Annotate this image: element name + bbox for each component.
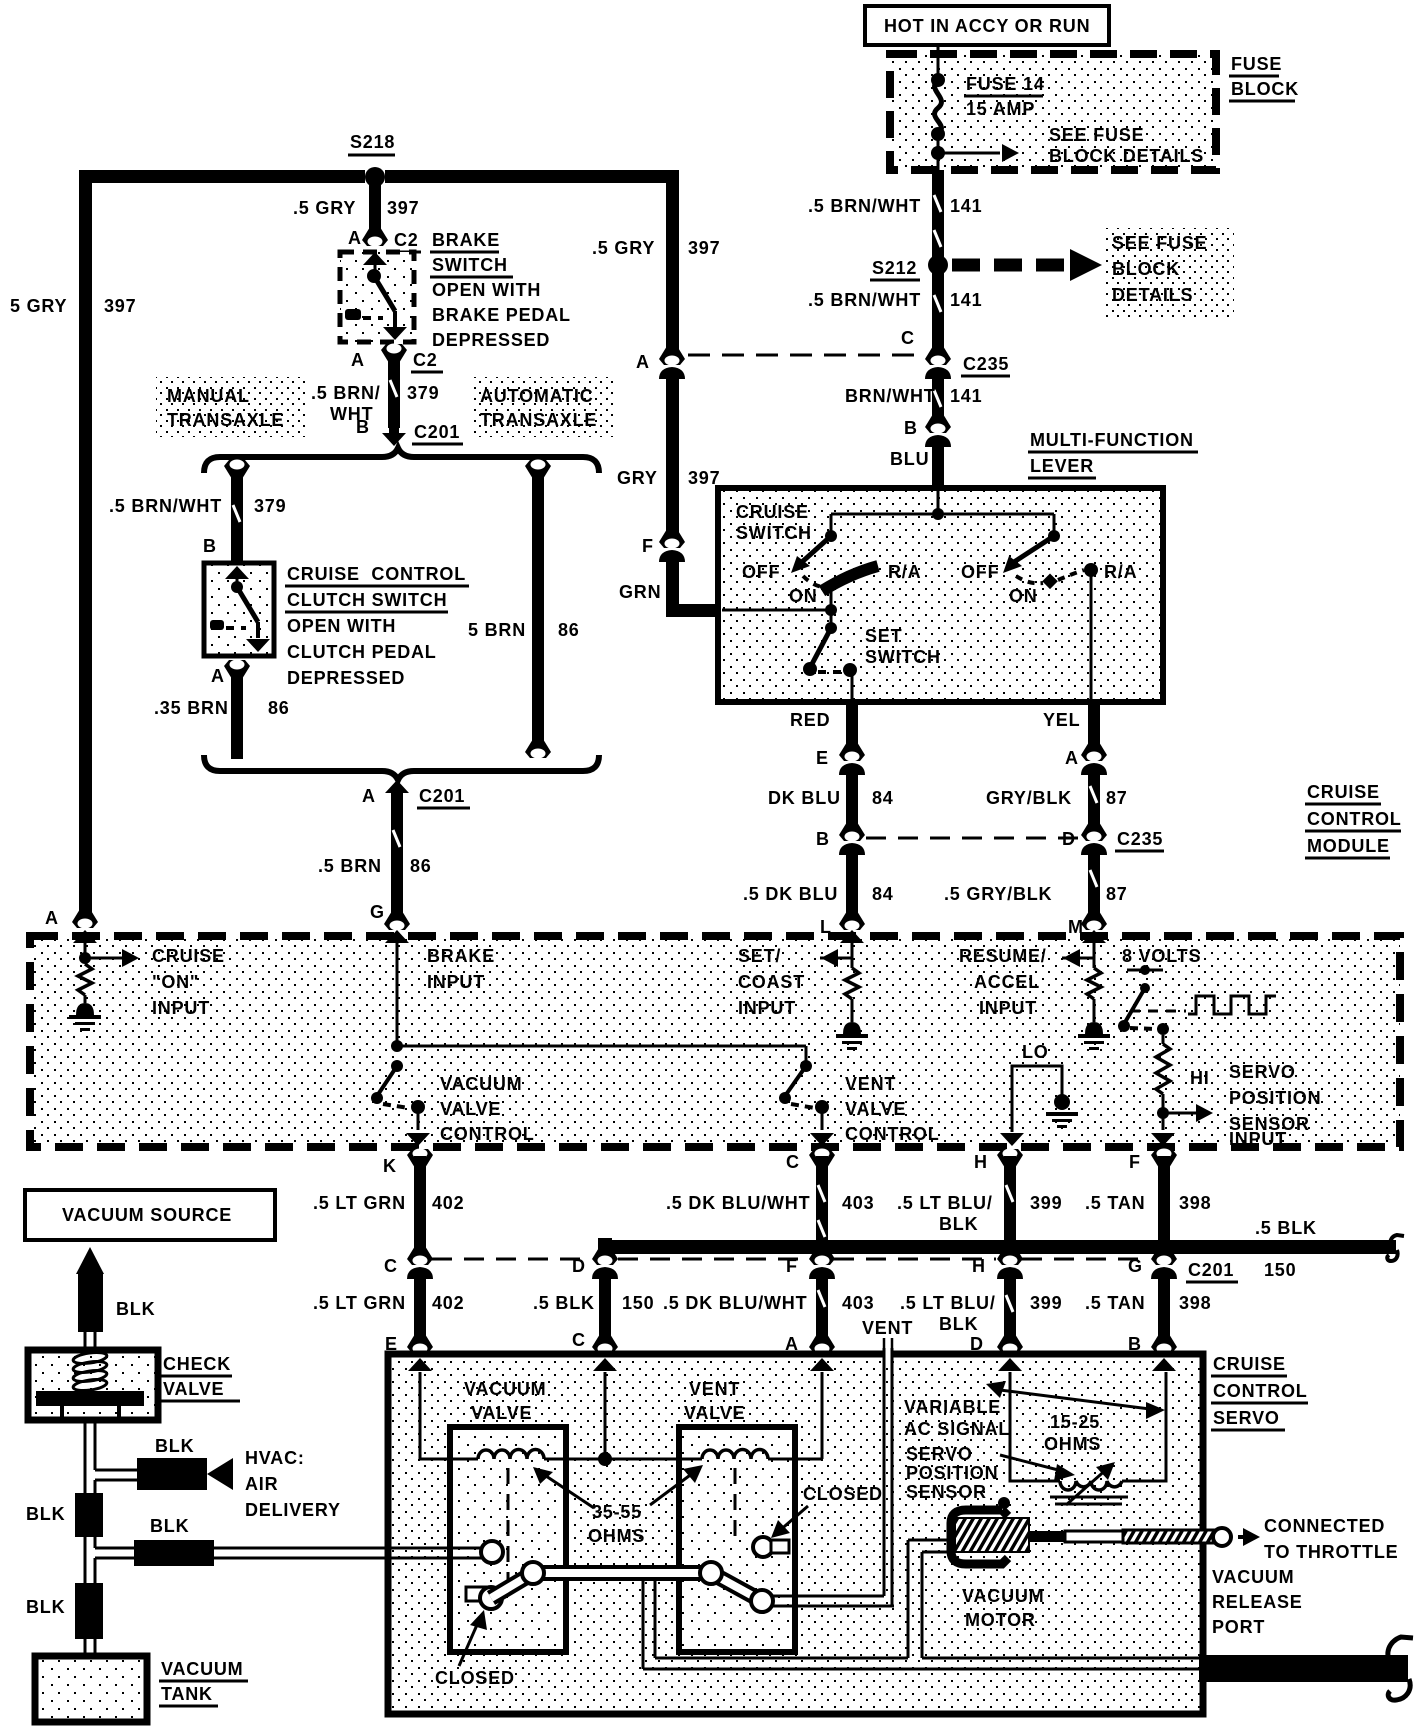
sensor coil xyxy=(1050,1462,1128,1505)
svg-text:OHMS: OHMS xyxy=(588,1526,645,1546)
module: vent valve control switch xyxy=(779,1060,940,1146)
node below fuse xyxy=(931,127,945,141)
svg-text:.5 BLK: .5 BLK xyxy=(533,1293,595,1313)
module input pin L: set/coast arrow xyxy=(820,930,864,968)
fuse block (dashed, shaded) xyxy=(890,54,1216,170)
svg-text:VENT: VENT xyxy=(862,1318,913,1338)
svg-text:5 GRY: 5 GRY xyxy=(10,296,67,316)
wire: S218 stub down .5 GRY 397 xyxy=(293,183,419,231)
label VENT xyxy=(862,1318,913,1352)
svg-text:.5 GRY: .5 GRY xyxy=(293,198,356,218)
svg-text:C: C xyxy=(901,328,915,348)
splice S212 xyxy=(870,255,948,280)
svg-text:BRAKE: BRAKE xyxy=(427,946,495,966)
svg-text:86: 86 xyxy=(268,698,290,718)
svg-text:.5 TAN: .5 TAN xyxy=(1085,1293,1145,1313)
svg-text:CRUISE CONTROL: CRUISE CONTROL xyxy=(287,564,466,584)
wire S212 to C235, .5 BRN/WHT 141 xyxy=(808,272,982,350)
node (dot) top of fuse xyxy=(931,73,945,87)
arrow SEE FUSE BLOCK DETAILS (inside fuse block) xyxy=(938,125,1204,166)
svg-text:A: A xyxy=(211,666,225,686)
svg-text:DETAILS: DETAILS xyxy=(1112,285,1193,305)
label AUTOMATIC TRANSAXLE xyxy=(470,377,614,437)
vacuum motor xyxy=(951,1497,1044,1630)
wire: LO output bracket xyxy=(1000,1066,1062,1146)
svg-text:SWITCH: SWITCH xyxy=(865,647,941,667)
wire fuse block to S212, .5 BRN/WHT 141 xyxy=(808,170,982,258)
svg-text:.5 DK BLU/WHT: .5 DK BLU/WHT xyxy=(666,1193,810,1213)
svg-text:.5 LT GRN: .5 LT GRN xyxy=(313,1293,406,1313)
svg-text:SENSOR: SENSOR xyxy=(906,1482,987,1502)
svg-text:.5 LT BLU/: .5 LT BLU/ xyxy=(897,1193,993,1213)
lever box xyxy=(718,488,1163,702)
svg-text:A: A xyxy=(362,786,376,806)
svg-text:B: B xyxy=(356,417,370,437)
svg-text:ON: ON xyxy=(789,586,818,606)
svg-text:403: 403 xyxy=(842,1293,874,1313)
vent valve solenoid box xyxy=(679,1427,795,1652)
svg-text:398: 398 xyxy=(1179,1193,1211,1213)
svg-text:C2: C2 xyxy=(394,230,419,250)
connector C2 pin A (bottom) xyxy=(351,344,443,373)
svg-text:A: A xyxy=(636,352,650,372)
node: sensor input tap with arrow xyxy=(1151,1094,1213,1146)
servo position sensor box xyxy=(1010,1372,1166,1481)
svg-text:C: C xyxy=(786,1152,800,1172)
wire RED from lever xyxy=(790,702,858,748)
svg-text:GRY: GRY xyxy=(617,468,658,488)
servo input arrows inside box xyxy=(408,1358,1176,1371)
svg-text:VACUUM: VACUUM xyxy=(161,1659,243,1679)
clutch switch SW2 (solid box) xyxy=(204,563,274,656)
connector C201 pin B xyxy=(356,417,463,446)
svg-text:VACUUM: VACUUM xyxy=(962,1586,1044,1606)
BLK tube segment 2 xyxy=(26,1583,103,1639)
svg-text:.5 BRN/WHT: .5 BRN/WHT xyxy=(808,196,921,216)
label FUSE 14 / 15 AMP xyxy=(964,74,1045,119)
svg-text:BLOCK DETAILS: BLOCK DETAILS xyxy=(1049,146,1204,166)
labels vacuum valve / vent valve xyxy=(464,1379,745,1423)
svg-text:86: 86 xyxy=(410,856,432,876)
svg-text:SET: SET xyxy=(865,626,902,646)
svg-text:8 VOLTS: 8 VOLTS xyxy=(1122,946,1201,966)
label RESUME/ACCEL INPUT xyxy=(959,946,1047,1018)
svg-text:.5 DK BLU: .5 DK BLU xyxy=(743,884,838,904)
svg-text:SWITCH: SWITCH xyxy=(736,523,812,543)
svg-text:OPEN WITH: OPEN WITH xyxy=(432,280,541,300)
svg-text:K: K xyxy=(383,1156,397,1176)
module input pin M: resume/accel arrow xyxy=(1062,930,1106,968)
svg-text:BLOCK: BLOCK xyxy=(1231,79,1299,99)
module input pin A: cruise on input arrow xyxy=(73,930,139,967)
label 35-55 OHMS with arrows xyxy=(533,1465,703,1546)
svg-text:C201: C201 xyxy=(419,786,465,806)
svg-text:BLK: BLK xyxy=(155,1436,194,1456)
svg-text:BLK: BLK xyxy=(939,1314,978,1334)
svg-text:84: 84 xyxy=(872,788,894,808)
wire H column: .5 LT BLU/BLK 399 xyxy=(897,1149,1062,1355)
label 15-25 OHMS xyxy=(1044,1412,1101,1454)
svg-text:397: 397 xyxy=(387,198,419,218)
connector A (right branch) xyxy=(636,346,685,379)
svg-text:141: 141 xyxy=(950,290,982,310)
arrow up to vacuum source xyxy=(76,1247,155,1332)
connector pin A xyxy=(1065,742,1107,775)
wire K column: .5 LT GRN 402 xyxy=(313,1149,464,1355)
wire .5 BRN 86 to module G xyxy=(318,792,432,931)
check valve xyxy=(28,1350,240,1420)
svg-text:R/A: R/A xyxy=(1104,562,1137,582)
svg-text:.5 GRY: .5 GRY xyxy=(592,238,655,258)
ground (LO leg) xyxy=(1046,1094,1078,1128)
svg-text:DK BLU: DK BLU xyxy=(768,788,841,808)
svg-text:AUTOMATIC: AUTOMATIC xyxy=(480,386,594,406)
svg-text:84: 84 xyxy=(872,884,894,904)
wire: GRN elbow into lever xyxy=(619,555,722,617)
svg-text:HI: HI xyxy=(1190,1068,1210,1088)
label LO xyxy=(1022,1042,1049,1062)
svg-text:E: E xyxy=(816,748,829,768)
svg-text:SEE FUSE: SEE FUSE xyxy=(1049,125,1144,145)
svg-text:DEPRESSED: DEPRESSED xyxy=(432,330,550,350)
wire B to multi-function lever, BLU xyxy=(890,440,944,490)
svg-text:CONNECTED: CONNECTED xyxy=(1264,1516,1385,1536)
svg-text:A: A xyxy=(45,908,59,928)
svg-text:COAST: COAST xyxy=(738,972,805,992)
svg-text:87: 87 xyxy=(1106,788,1128,808)
wire: 5 BRN 86 (automatic branch) xyxy=(468,460,580,759)
vent valve port (closed) xyxy=(753,1537,789,1557)
svg-text:TRANSAXLE: TRANSAXLE xyxy=(480,410,597,430)
set switch xyxy=(803,610,941,702)
svg-text:INPUT: INPUT xyxy=(152,998,210,1018)
svg-text:.5 BRN/WHT: .5 BRN/WHT xyxy=(109,496,222,516)
lever interior wiring xyxy=(825,488,1060,542)
svg-text:FUSE 14: FUSE 14 xyxy=(966,74,1045,94)
svg-text:.5 LT GRN: .5 LT GRN xyxy=(313,1193,406,1213)
svg-text:379: 379 xyxy=(254,496,286,516)
svg-text:BLK: BLK xyxy=(26,1597,65,1617)
vacuum supply tube into valve xyxy=(388,1541,503,1563)
svg-text:C: C xyxy=(384,1256,398,1276)
coil wires from inputs xyxy=(420,1372,822,1466)
svg-text:RELEASE: RELEASE xyxy=(1212,1592,1303,1612)
svg-text:150: 150 xyxy=(1264,1260,1296,1280)
squarewave signal xyxy=(1130,996,1276,1014)
svg-text:HOT IN ACCY OR RUN: HOT IN ACCY OR RUN xyxy=(884,16,1090,36)
label CLOSED (vacuum) xyxy=(435,1610,515,1688)
svg-text:CONTROL: CONTROL xyxy=(845,1124,940,1144)
svg-text:D: D xyxy=(1062,829,1076,849)
tube below check valve xyxy=(85,1420,95,1493)
svg-text:C: C xyxy=(572,1330,586,1350)
resistor R4 HI (servo position sensor) xyxy=(1156,1035,1210,1094)
wire DK BLU 84 xyxy=(768,768,894,826)
svg-text:VARIABLE: VARIABLE xyxy=(904,1397,1001,1417)
wire .35 BRN 86 below clutch switch xyxy=(154,660,290,760)
svg-text:.5 DK BLU/WHT: .5 DK BLU/WHT xyxy=(663,1293,807,1313)
svg-text:H: H xyxy=(974,1152,988,1172)
svg-text:INPUT: INPUT xyxy=(738,998,796,1018)
svg-text:VALVE: VALVE xyxy=(684,1403,745,1423)
svg-text:F: F xyxy=(642,536,654,556)
svg-text:MULTI-FUNCTION: MULTI-FUNCTION xyxy=(1030,430,1194,450)
svg-text:BLU: BLU xyxy=(890,449,929,469)
svg-text:POSITION: POSITION xyxy=(1229,1088,1321,1108)
svg-text:.5 TAN: .5 TAN xyxy=(1085,1193,1145,1213)
svg-text:399: 399 xyxy=(1030,1193,1062,1213)
wire: GRY 397 below A xyxy=(617,372,720,534)
svg-text:141: 141 xyxy=(950,386,982,406)
svg-text:GRN: GRN xyxy=(619,582,661,602)
label VARIABLE AC SIGNAL with arrows xyxy=(904,1381,1165,1439)
wire C235 to B, BRN/WHT 141 xyxy=(845,372,982,418)
label servo position sensor input xyxy=(1229,1062,1321,1149)
svg-text:ON: ON xyxy=(1009,586,1038,606)
svg-text:397: 397 xyxy=(104,296,136,316)
svg-text:AC SIGNAL: AC SIGNAL xyxy=(904,1419,1010,1439)
connector pin B / C235 xyxy=(816,822,865,855)
svg-text:RED: RED xyxy=(790,710,830,730)
brake switch SW1 (dashed box) xyxy=(340,252,414,342)
left switch common to GRN input xyxy=(722,586,837,616)
svg-text:A: A xyxy=(348,228,362,248)
svg-text:LEVER: LEVER xyxy=(1030,456,1094,476)
svg-text:B: B xyxy=(816,829,830,849)
svg-text:SWITCH: SWITCH xyxy=(432,255,508,275)
svg-text:VENT: VENT xyxy=(689,1379,740,1399)
svg-text:A: A xyxy=(351,350,365,370)
svg-text:VALVE: VALVE xyxy=(471,1403,532,1423)
connector F xyxy=(642,529,685,562)
svg-text:MODULE: MODULE xyxy=(1307,836,1390,856)
svg-text:403: 403 xyxy=(842,1193,874,1213)
wire: clutch branch .5 BRN/WHT 379 xyxy=(109,460,286,563)
svg-text:86: 86 xyxy=(558,620,580,640)
svg-text:BRN/WHT: BRN/WHT xyxy=(845,386,936,406)
svg-text:35-55: 35-55 xyxy=(592,1502,642,1522)
wire F column: .5 TAN 398 xyxy=(1085,1149,1211,1355)
branch to servo (vacuum supply) xyxy=(85,1516,393,1583)
svg-text:F: F xyxy=(1129,1152,1141,1172)
wire: left vertical 5 GRY 397 xyxy=(10,170,136,929)
svg-text:C2: C2 xyxy=(413,350,438,370)
svg-text:INPUT: INPUT xyxy=(979,998,1037,1018)
pin A label at left wire xyxy=(45,908,59,928)
svg-text:OFF: OFF xyxy=(961,562,999,582)
svg-text:RESUME/: RESUME/ xyxy=(959,946,1047,966)
svg-text:BLK: BLK xyxy=(116,1299,155,1319)
svg-text:402: 402 xyxy=(432,1193,464,1213)
svg-text:CHECK: CHECK xyxy=(163,1354,231,1374)
module: BRAKE INPUT xyxy=(385,930,495,1046)
connector C235 pin C xyxy=(901,328,1010,379)
svg-text:CONTROL: CONTROL xyxy=(1213,1381,1308,1401)
label CRUISE CONTROL SERVO xyxy=(1211,1354,1308,1430)
svg-text:CRUISE: CRUISE xyxy=(1213,1354,1286,1374)
svg-text:B: B xyxy=(904,418,918,438)
node at arrow tap xyxy=(931,146,945,160)
svg-text:G: G xyxy=(370,902,385,922)
svg-text:HVAC:: HVAC: xyxy=(245,1448,305,1468)
wire: right vertical .5 GRY 397 xyxy=(592,170,720,351)
svg-text:379: 379 xyxy=(407,383,439,403)
connector pin B xyxy=(904,414,951,447)
label xyxy=(1028,430,1198,478)
svg-text:VALVE: VALVE xyxy=(845,1099,906,1119)
svg-text:150: 150 xyxy=(622,1293,654,1313)
svg-text:YEL: YEL xyxy=(1043,710,1080,730)
svg-text:15-25: 15-25 xyxy=(1050,1412,1100,1432)
resistor R2 (set/coast input) xyxy=(845,968,859,1022)
wire .5 DK BLU 84 xyxy=(743,848,894,937)
dashed net B to D xyxy=(866,837,1078,840)
svg-text:.5 GRY/BLK: .5 GRY/BLK xyxy=(944,884,1052,904)
svg-text:MANUAL: MANUAL xyxy=(167,386,250,406)
svg-text:5 BRN: 5 BRN xyxy=(468,620,526,640)
svg-text:C235: C235 xyxy=(1117,829,1163,849)
splice S218 xyxy=(348,132,395,187)
resistor R3 (resume/accel input) xyxy=(1087,968,1101,1022)
ground (set/coast input) xyxy=(836,1022,868,1050)
svg-text:DEPRESSED: DEPRESSED xyxy=(287,668,405,688)
throttle rod xyxy=(1029,1516,1398,1562)
svg-text:87: 87 xyxy=(1106,884,1128,904)
label 8 VOLTS xyxy=(1122,946,1201,966)
svg-text:402: 402 xyxy=(432,1293,464,1313)
left cruise switch blade to OFF xyxy=(742,536,921,606)
svg-text:INPUT: INPUT xyxy=(427,972,485,992)
svg-text:PORT: PORT xyxy=(1212,1617,1265,1637)
svg-text:BRAKE PEDAL: BRAKE PEDAL xyxy=(432,305,571,325)
svg-text:CLUTCH SWITCH: CLUTCH SWITCH xyxy=(287,590,447,610)
vacuum valve solenoid box xyxy=(450,1427,566,1652)
svg-text:BLK: BLK xyxy=(939,1214,978,1234)
wire C column: .5 DK BLU/WHT 403 xyxy=(663,1149,874,1355)
svg-text:SERVO: SERVO xyxy=(1213,1408,1280,1428)
cruise switch label xyxy=(736,502,812,543)
svg-text:CLOSED: CLOSED xyxy=(803,1484,883,1504)
branch to HVAC xyxy=(95,1436,341,1520)
label SET/COAST INPUT xyxy=(738,946,805,1018)
module: vacuum valve control switch xyxy=(371,1040,535,1146)
svg-text:.35 BRN: .35 BRN xyxy=(154,698,229,718)
svg-text:CONTROL: CONTROL xyxy=(1307,809,1402,829)
servo box xyxy=(388,1354,1203,1714)
wire .5 BLK 150 bus xyxy=(533,1218,1404,1354)
svg-text:C201: C201 xyxy=(414,422,460,442)
svg-text:SET/: SET/ xyxy=(738,946,781,966)
svg-text:TANK: TANK xyxy=(161,1684,213,1704)
svg-text:VENT: VENT xyxy=(845,1074,896,1094)
label CRUISE "ON" INPUT xyxy=(152,946,225,1018)
wire GRY/BLK 87 xyxy=(986,768,1128,826)
brake switch internals xyxy=(345,252,407,340)
svg-text:CRUISE: CRUISE xyxy=(1307,782,1380,802)
svg-text:SERVO: SERVO xyxy=(906,1444,973,1464)
svg-text:CRUISE: CRUISE xyxy=(736,502,809,522)
dashed plunger lines xyxy=(508,1468,735,1592)
svg-text:BLOCK: BLOCK xyxy=(1112,259,1180,279)
wire YEL from lever xyxy=(1043,702,1100,748)
brace (top) for transaxle alternates xyxy=(204,448,599,473)
svg-text:15 AMP: 15 AMP xyxy=(966,99,1035,119)
svg-text:SERVO: SERVO xyxy=(1229,1062,1296,1082)
svg-text:"ON": "ON" xyxy=(152,972,199,992)
brace (bottom) xyxy=(204,755,599,780)
svg-text:CLOSED: CLOSED xyxy=(435,1668,515,1688)
svg-text:VALVE: VALVE xyxy=(440,1099,501,1119)
svg-text:ACCEL: ACCEL xyxy=(974,972,1040,992)
wire: top horizontal bus from S218 xyxy=(79,170,678,183)
label CRUISE CONTROL MODULE xyxy=(1305,782,1402,858)
svg-text:S212: S212 xyxy=(872,258,917,278)
vacuum valve seat (closed) xyxy=(466,1587,502,1609)
BLK tube segment xyxy=(26,1493,103,1537)
label SERVO POSITION SENSOR with arrow xyxy=(906,1444,1075,1502)
svg-text:OPEN WITH: OPEN WITH xyxy=(287,616,396,636)
vacuum valve coil xyxy=(478,1449,544,1459)
svg-text:C201: C201 xyxy=(1188,1260,1234,1280)
svg-text:.5 BRN/WHT: .5 BRN/WHT xyxy=(808,290,921,310)
svg-text:BRAKE: BRAKE xyxy=(432,230,500,250)
svg-text:MOTOR: MOTOR xyxy=(965,1610,1036,1630)
svg-text:VACUUM SOURCE: VACUUM SOURCE xyxy=(62,1205,232,1225)
wire .5 GRY/BLK 87 xyxy=(944,848,1128,937)
fuse F14 element (wavy) xyxy=(935,80,942,134)
svg-text:.5 LT BLU/: .5 LT BLU/ xyxy=(900,1293,996,1313)
svg-text:CONTROL: CONTROL xyxy=(440,1124,535,1144)
tube into check valve xyxy=(85,1332,95,1350)
label FUSE BLOCK xyxy=(1229,54,1299,101)
svg-text:DELIVERY: DELIVERY xyxy=(245,1500,341,1520)
svg-text:INPUT: INPUT xyxy=(1229,1129,1287,1149)
svg-text:BLK: BLK xyxy=(26,1504,65,1524)
svg-text:GRY/BLK: GRY/BLK xyxy=(986,788,1072,808)
svg-text:VALVE: VALVE xyxy=(163,1379,224,1399)
wire from HOT box into fuse block xyxy=(937,45,940,78)
switch SW3: 8 volt chopper xyxy=(1118,965,1169,1035)
svg-text:POSITION: POSITION xyxy=(906,1463,998,1483)
connector pin E xyxy=(816,742,865,775)
connector C2 pin A (top) xyxy=(348,227,421,252)
svg-text:R/A: R/A xyxy=(888,562,921,582)
label brake switch xyxy=(430,230,571,350)
svg-text:FUSE: FUSE xyxy=(1231,54,1282,74)
box VACUUM SOURCE xyxy=(25,1190,275,1240)
svg-text:AIR: AIR xyxy=(245,1474,278,1494)
label CLOSED (vent) xyxy=(771,1484,883,1538)
connector pin D / C235 xyxy=(1062,822,1164,855)
svg-text:141: 141 xyxy=(950,196,982,216)
ground (resume/accel input) xyxy=(1078,1022,1110,1050)
dashed arrow to SEE FUSE BLOCK DETAILS xyxy=(952,228,1234,318)
svg-text:397: 397 xyxy=(688,238,720,258)
dashed net A to C235 xyxy=(688,354,924,357)
svg-text:OFF: OFF xyxy=(742,562,780,582)
tube to vacuum tank xyxy=(85,1639,95,1656)
svg-text:CLUTCH PEDAL: CLUTCH PEDAL xyxy=(287,642,437,662)
vacuum release port bar and break xyxy=(1199,1637,1413,1700)
vacuum motor tube xyxy=(908,1540,948,1658)
connector C201 pin A (arrow up) xyxy=(362,780,470,808)
svg-text:SEE FUSE: SEE FUSE xyxy=(1112,233,1207,253)
svg-text:TRANSAXLE: TRANSAXLE xyxy=(167,410,284,430)
svg-text:S218: S218 xyxy=(350,132,395,152)
label cruise control clutch switch xyxy=(285,564,469,688)
label vacuum release port xyxy=(1212,1567,1303,1637)
label MANUAL TRANSAXLE xyxy=(156,377,308,437)
